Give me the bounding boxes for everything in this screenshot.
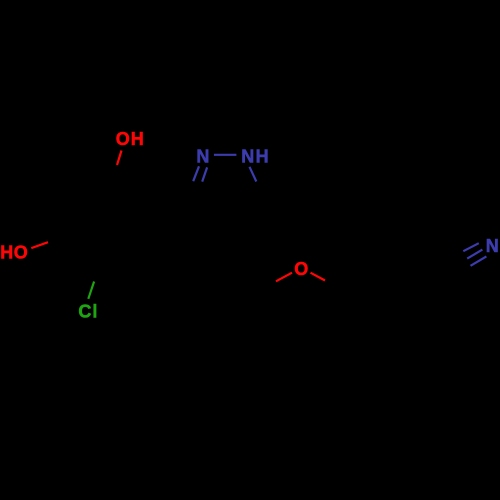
nitrile triple bond line 2 half (blue)	[467, 250, 482, 259]
pyrazole carbon edges	[187, 196, 266, 224]
svg-text:OH: OH	[116, 129, 145, 149]
nitrile triple bond line 1 half (blue)	[463, 243, 479, 251]
pyrazole N1-C5 bond half (blue)	[250, 167, 257, 182]
pyrazole N-N single bond (blue)	[214, 154, 237, 156]
hydroxyl O-ring bond stub (red)	[117, 151, 122, 166]
chloro Cl-ring bond stub (green)	[88, 282, 94, 299]
svg-text:N: N	[196, 147, 209, 167]
svg-text:N: N	[486, 236, 499, 256]
svg-text:HO: HO	[0, 242, 28, 262]
svg-text:C: C	[78, 302, 91, 322]
ether O-CH2 bond half (red)	[276, 273, 292, 282]
ether O-aryl bond half (red)	[311, 273, 326, 281]
nitrile triple bond line 3 half (blue)	[471, 256, 487, 265]
wire aryl-pyrazole C3 bond	[158, 196, 187, 201]
hydroxyl HO-ring bond stub (red)	[31, 242, 48, 248]
pyrazole N2=C3 double bond outer half (blue)	[193, 166, 199, 181]
svg-text:l: l	[92, 301, 97, 321]
benzonitrile ring	[340, 273, 434, 360]
svg-text:NH: NH	[241, 147, 270, 167]
svg-text:O: O	[294, 259, 308, 279]
invisible carbon skeleton (black on black), benzene ring left	[56, 179, 442, 360]
pyrazole N2=C3 double bond inner half (blue)	[202, 167, 207, 181]
nitrile C bond	[426, 272, 442, 287]
chain C4 to CH2	[227, 224, 262, 288]
